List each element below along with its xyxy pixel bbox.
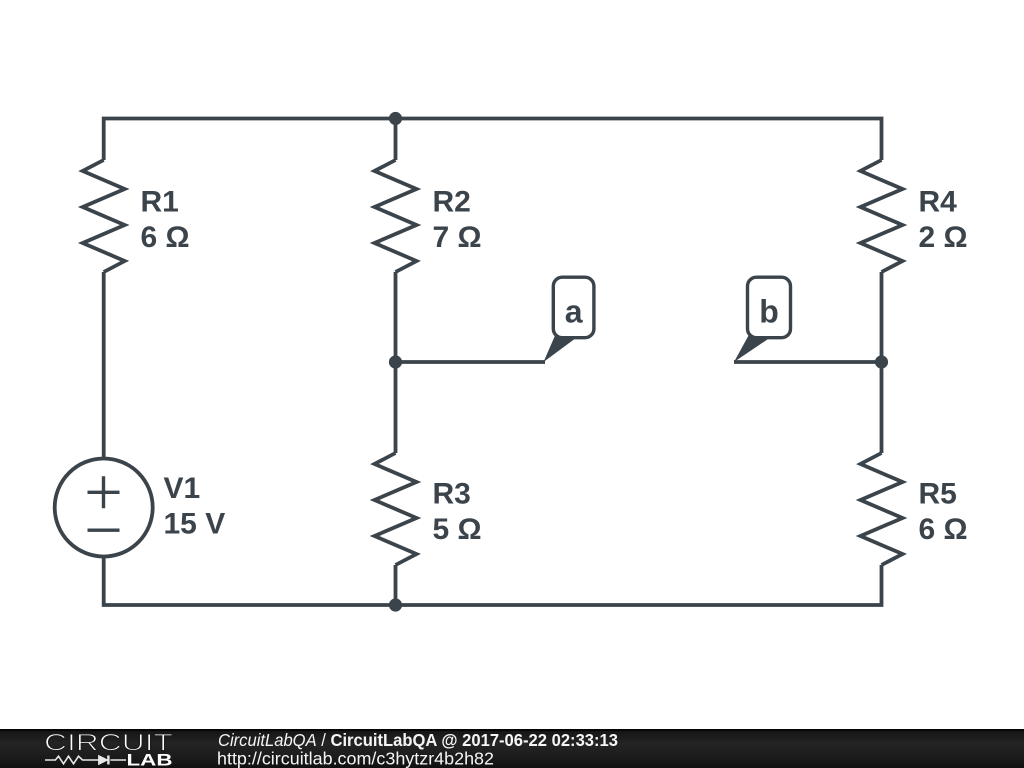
svg-text:15 V: 15 V: [164, 508, 226, 541]
svg-text:CircuitLabQA / CircuitLabQA @: CircuitLabQA / CircuitLabQA @ 2017-06-22…: [218, 730, 618, 750]
wire right branch (R4 to node b junction): [880, 272, 884, 362]
junction bottom middle: [389, 598, 402, 611]
svg-text:R3: R3: [433, 478, 471, 511]
svg-text:R2: R2: [433, 186, 471, 219]
logo resistor-diode glyph: [45, 756, 126, 765]
resistor R4: [861, 160, 903, 272]
wire node a stub: [396, 360, 546, 364]
svg-text:a: a: [565, 294, 583, 330]
V1 plus sign: [88, 476, 120, 508]
wire node b stub: [734, 360, 882, 364]
resistor R3: [375, 453, 417, 565]
wire top middle stub: [394, 119, 398, 161]
resistor R5: [861, 453, 903, 565]
svg-text:V1: V1: [164, 472, 201, 505]
svg-text:6 Ω: 6 Ω: [919, 513, 968, 546]
svg-text:6 Ω: 6 Ω: [141, 221, 190, 254]
footer bar: [0, 729, 1024, 768]
svg-text:2 Ω: 2 Ω: [919, 221, 968, 254]
svg-text:5 Ω: 5 Ω: [433, 513, 482, 546]
wire bottom rail: [104, 557, 882, 606]
wire right branch (junction to R5): [880, 362, 884, 453]
junction top middle: [389, 112, 402, 125]
node flag a: [544, 277, 594, 362]
svg-text:7 Ω: 7 Ω: [433, 221, 482, 254]
junction node b: [875, 355, 888, 368]
junction node a: [389, 355, 402, 368]
wire middle branch (R2 to node a junction): [394, 272, 398, 362]
V1 minus sign: [88, 529, 120, 532]
svg-text:R4: R4: [919, 186, 958, 219]
svg-text:LAB: LAB: [127, 752, 173, 768]
wire left middle (R1 to V1): [102, 272, 106, 459]
wire middle branch (junction to R3): [394, 362, 398, 453]
resistor R2: [375, 160, 417, 272]
svg-text:R1: R1: [141, 186, 179, 219]
wire middle branch (R3 to bottom): [394, 565, 398, 605]
svg-text:http://circuitlab.com/c3hytzr4: http://circuitlab.com/c3hytzr4b2h82: [217, 749, 494, 768]
svg-text:b: b: [759, 294, 779, 330]
wire top rail: [104, 119, 882, 161]
svg-text:R5: R5: [919, 478, 957, 511]
node flag b: [734, 277, 791, 362]
resistor R1: [83, 160, 125, 272]
voltage source V1: [55, 459, 153, 557]
